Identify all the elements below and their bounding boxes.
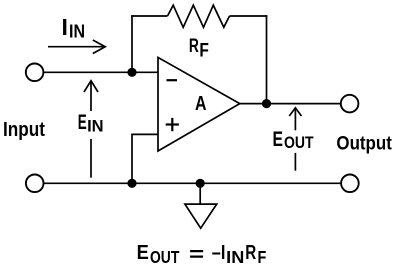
svg-text:E: E	[137, 242, 149, 264]
arrow: IIN current direction arrow	[48, 46, 104, 48]
node: ground junction	[196, 179, 205, 188]
terminal: output bottom circle	[341, 175, 359, 193]
svg-text:IN: IN	[87, 117, 104, 136]
terminal: output top circle	[341, 95, 359, 113]
svg-text:Input: Input	[3, 119, 45, 141]
svg-text:OUT: OUT	[284, 133, 314, 152]
arrow: EOUT measurement arrow upper part with head	[294, 109, 296, 131]
svg-text:OUT: OUT	[150, 247, 180, 267]
wire: non-inverting input wire to bottom rail	[132, 134, 158, 183]
node: bottom rail left junction	[127, 179, 136, 188]
svg-text:A: A	[195, 93, 207, 115]
op-amp A triangle	[158, 57, 240, 151]
svg-text:F: F	[199, 40, 209, 61]
wire: bottom rail	[44, 182, 342, 184]
svg-text:R: R	[245, 242, 256, 264]
terminal: input top circle	[26, 64, 44, 82]
resistor RF zigzag	[168, 5, 230, 27]
svg-text:–I: –I	[212, 242, 226, 264]
svg-text:IN: IN	[69, 22, 85, 42]
svg-text:E: E	[273, 128, 284, 151]
svg-text:F: F	[258, 247, 267, 267]
arrow: EOUT measurement arrow lower shaft	[294, 153, 296, 171]
terminal: input bottom circle	[26, 175, 44, 193]
wire: feedback right vertical drop to output node	[266, 15, 268, 103]
svg-text:Output: Output	[336, 134, 392, 155]
op-amp non-inverting input plus sign	[166, 123, 179, 125]
svg-text:I: I	[62, 14, 68, 40]
wire: ground stub	[199, 183, 201, 204]
wire: top feedback wire right segment	[230, 15, 268, 17]
svg-text:E: E	[78, 111, 87, 134]
wire: top input wire from input terminal to op-amp inverting input	[43, 71, 158, 73]
wire: output wire from op-amp to output terminal	[240, 103, 341, 105]
ground symbol	[185, 204, 217, 228]
svg-text:IN: IN	[226, 247, 244, 267]
svg-text:R: R	[189, 36, 199, 57]
svg-text:=: =	[189, 244, 204, 266]
arrow: EIN measurement arrow lower shaft	[90, 139, 92, 178]
wire: feedback left vertical riser	[131, 15, 133, 72]
op-amp inverting input minus sign	[167, 79, 178, 81]
arrow: EIN measurement arrow upper part with head	[90, 82, 92, 112]
node: inverting input junction	[127, 68, 136, 77]
node: output junction	[262, 99, 271, 108]
wire: top feedback wire left segment	[131, 15, 167, 17]
